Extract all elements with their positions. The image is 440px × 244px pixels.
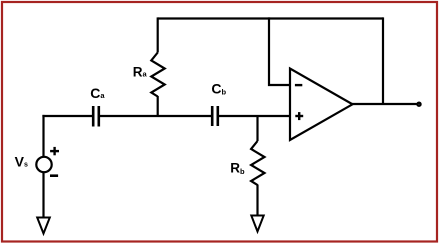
resistor R_b [251, 116, 264, 216]
capacitor C_a [93, 106, 99, 127]
voltage source V_s [36, 157, 51, 172]
minus marker of V_s [50, 174, 58, 177]
svg-text:Vs: Vs [15, 154, 28, 170]
plus marker of V_s [50, 147, 59, 155]
svg-text:Ca: Ca [90, 85, 105, 101]
capacitor C_b [212, 106, 218, 126]
ground (R_b arrow) [251, 216, 263, 232]
wire: signal rail between C_a and C_b [100, 115, 211, 117]
wire: V_s bottom lead [42, 172, 44, 217]
wire: signal rail from C_b to op-amp + input [219, 115, 290, 117]
wire: output [352, 103, 417, 105]
svg-text:Rb: Rb [230, 160, 245, 175]
wire: main signal rail left of C_a [42, 115, 92, 117]
wire: feedback vertical to output node [382, 17, 384, 104]
op-amp inverting pin marker [295, 84, 302, 86]
node: output terminal dot [418, 103, 421, 106]
op-amp U1 [290, 69, 353, 141]
op-amp non-inverting pin marker [295, 112, 303, 120]
wire: V_s top lead [42, 115, 44, 157]
wire: top feedback rail [158, 17, 383, 19]
svg-text:Cb: Cb [211, 81, 226, 97]
wire: inverting input branch [269, 17, 290, 85]
ground (V_s arrow) [37, 218, 50, 234]
resistor R_a [151, 17, 164, 117]
svg-text:Ra: Ra [133, 65, 148, 80]
